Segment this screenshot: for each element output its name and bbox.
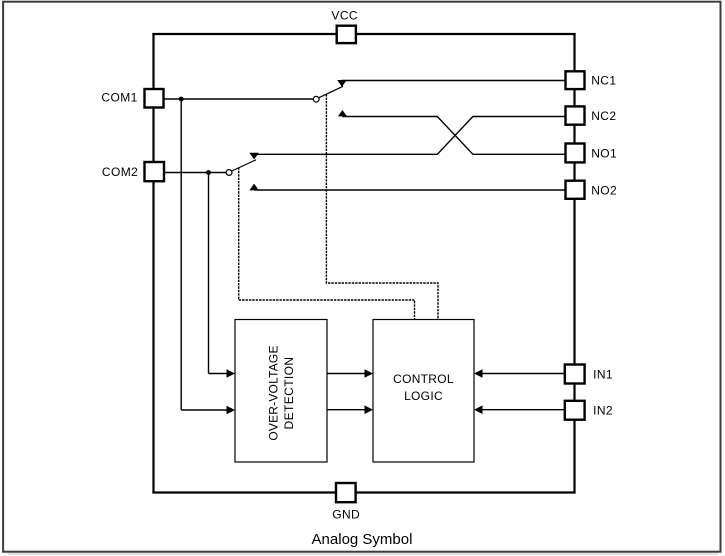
switch S2 pole circle [226,170,232,176]
wire OVD to control upper [327,373,366,375]
dashed control wire from S2 [239,167,415,319]
wire S1 NC to NC1 [342,80,565,82]
block U1 over-voltage detection [235,320,327,463]
wire S2 NC horizontal [254,153,438,155]
wire S1 NO horizontal [342,116,437,118]
pin COM2 [145,162,165,181]
switch S1 NO contact triangle [338,110,347,116]
switch S1 blade [319,86,343,97]
wire OVD to control lower [327,409,366,411]
wire COM1 into OVD [181,409,228,411]
pin NO2 [566,181,585,199]
wire cross diagonal down to NO1 [437,117,473,155]
wire COM1 to switch pole [164,98,314,100]
wire cross diagonal up to NC2 [437,117,473,155]
svg-text:NC1: NC1 [591,74,616,88]
arrowhead control upper right [474,369,483,378]
arrowhead control upper left [365,369,374,378]
arrowhead into OVD lower [227,406,236,415]
wire: main outline bottom [152,491,575,493]
wire: main outline right [573,33,575,494]
switch S2 NC contact triangle [249,153,258,160]
switch S1 NC contact triangle [337,80,347,87]
svg-text:COM1: COM1 [101,90,137,104]
svg-text:COM2: COM2 [102,165,138,179]
pin COM1 [145,89,164,108]
wire to NC2 pin [473,116,566,118]
svg-text:NC2: NC2 [591,109,616,123]
pin IN1 [565,365,585,384]
svg-text:OVER-VOLTAGE: OVER-VOLTAGE [267,345,281,440]
node junction on COM1 wire [179,97,184,102]
wire COM2 to switch pole [164,172,226,174]
svg-text:NO2: NO2 [591,183,617,197]
svg-text:IN1: IN1 [593,368,613,382]
wire S2 NO to NO2 [254,189,565,191]
wire COM2 junction down [208,173,210,374]
pin VCC [337,26,356,43]
pin NC1 [566,71,585,89]
node junction on COM2 wire [206,170,211,175]
switch S1 pole circle [313,96,319,102]
svg-text:CONTROL: CONTROL [393,372,454,386]
svg-text:VCC: VCC [331,8,358,22]
svg-text:NO1: NO1 [591,147,617,161]
switch S2 NO contact triangle [249,184,258,191]
arrowhead into OVD upper [227,369,236,378]
wire COM1 junction down [180,99,182,410]
arrowhead control lower right [474,405,483,414]
svg-text:DETECTION: DETECTION [282,357,296,430]
wire IN1 to control [481,373,565,375]
wire IN2 to control [481,409,565,411]
svg-text:IN2: IN2 [593,404,613,418]
block U2 control logic [373,320,474,463]
shadow strip [8,553,718,556]
wire to NO1 pin [473,153,566,155]
svg-text:Analog Symbol: Analog Symbol [312,531,413,548]
svg-text:GND: GND [332,507,360,521]
wire: main outline top [152,33,575,35]
pin NO1 [566,144,585,163]
pin GND [336,483,356,502]
wire: main outline left [152,33,154,494]
pin NC2 [566,106,585,124]
pin IN2 [565,401,585,420]
svg-text:LOGIC: LOGIC [404,389,443,403]
arrowhead control lower left [365,405,374,414]
dashed control wire from S1 [326,94,438,319]
switch S2 blade [232,160,256,171]
wire COM2 into OVD [209,373,229,375]
